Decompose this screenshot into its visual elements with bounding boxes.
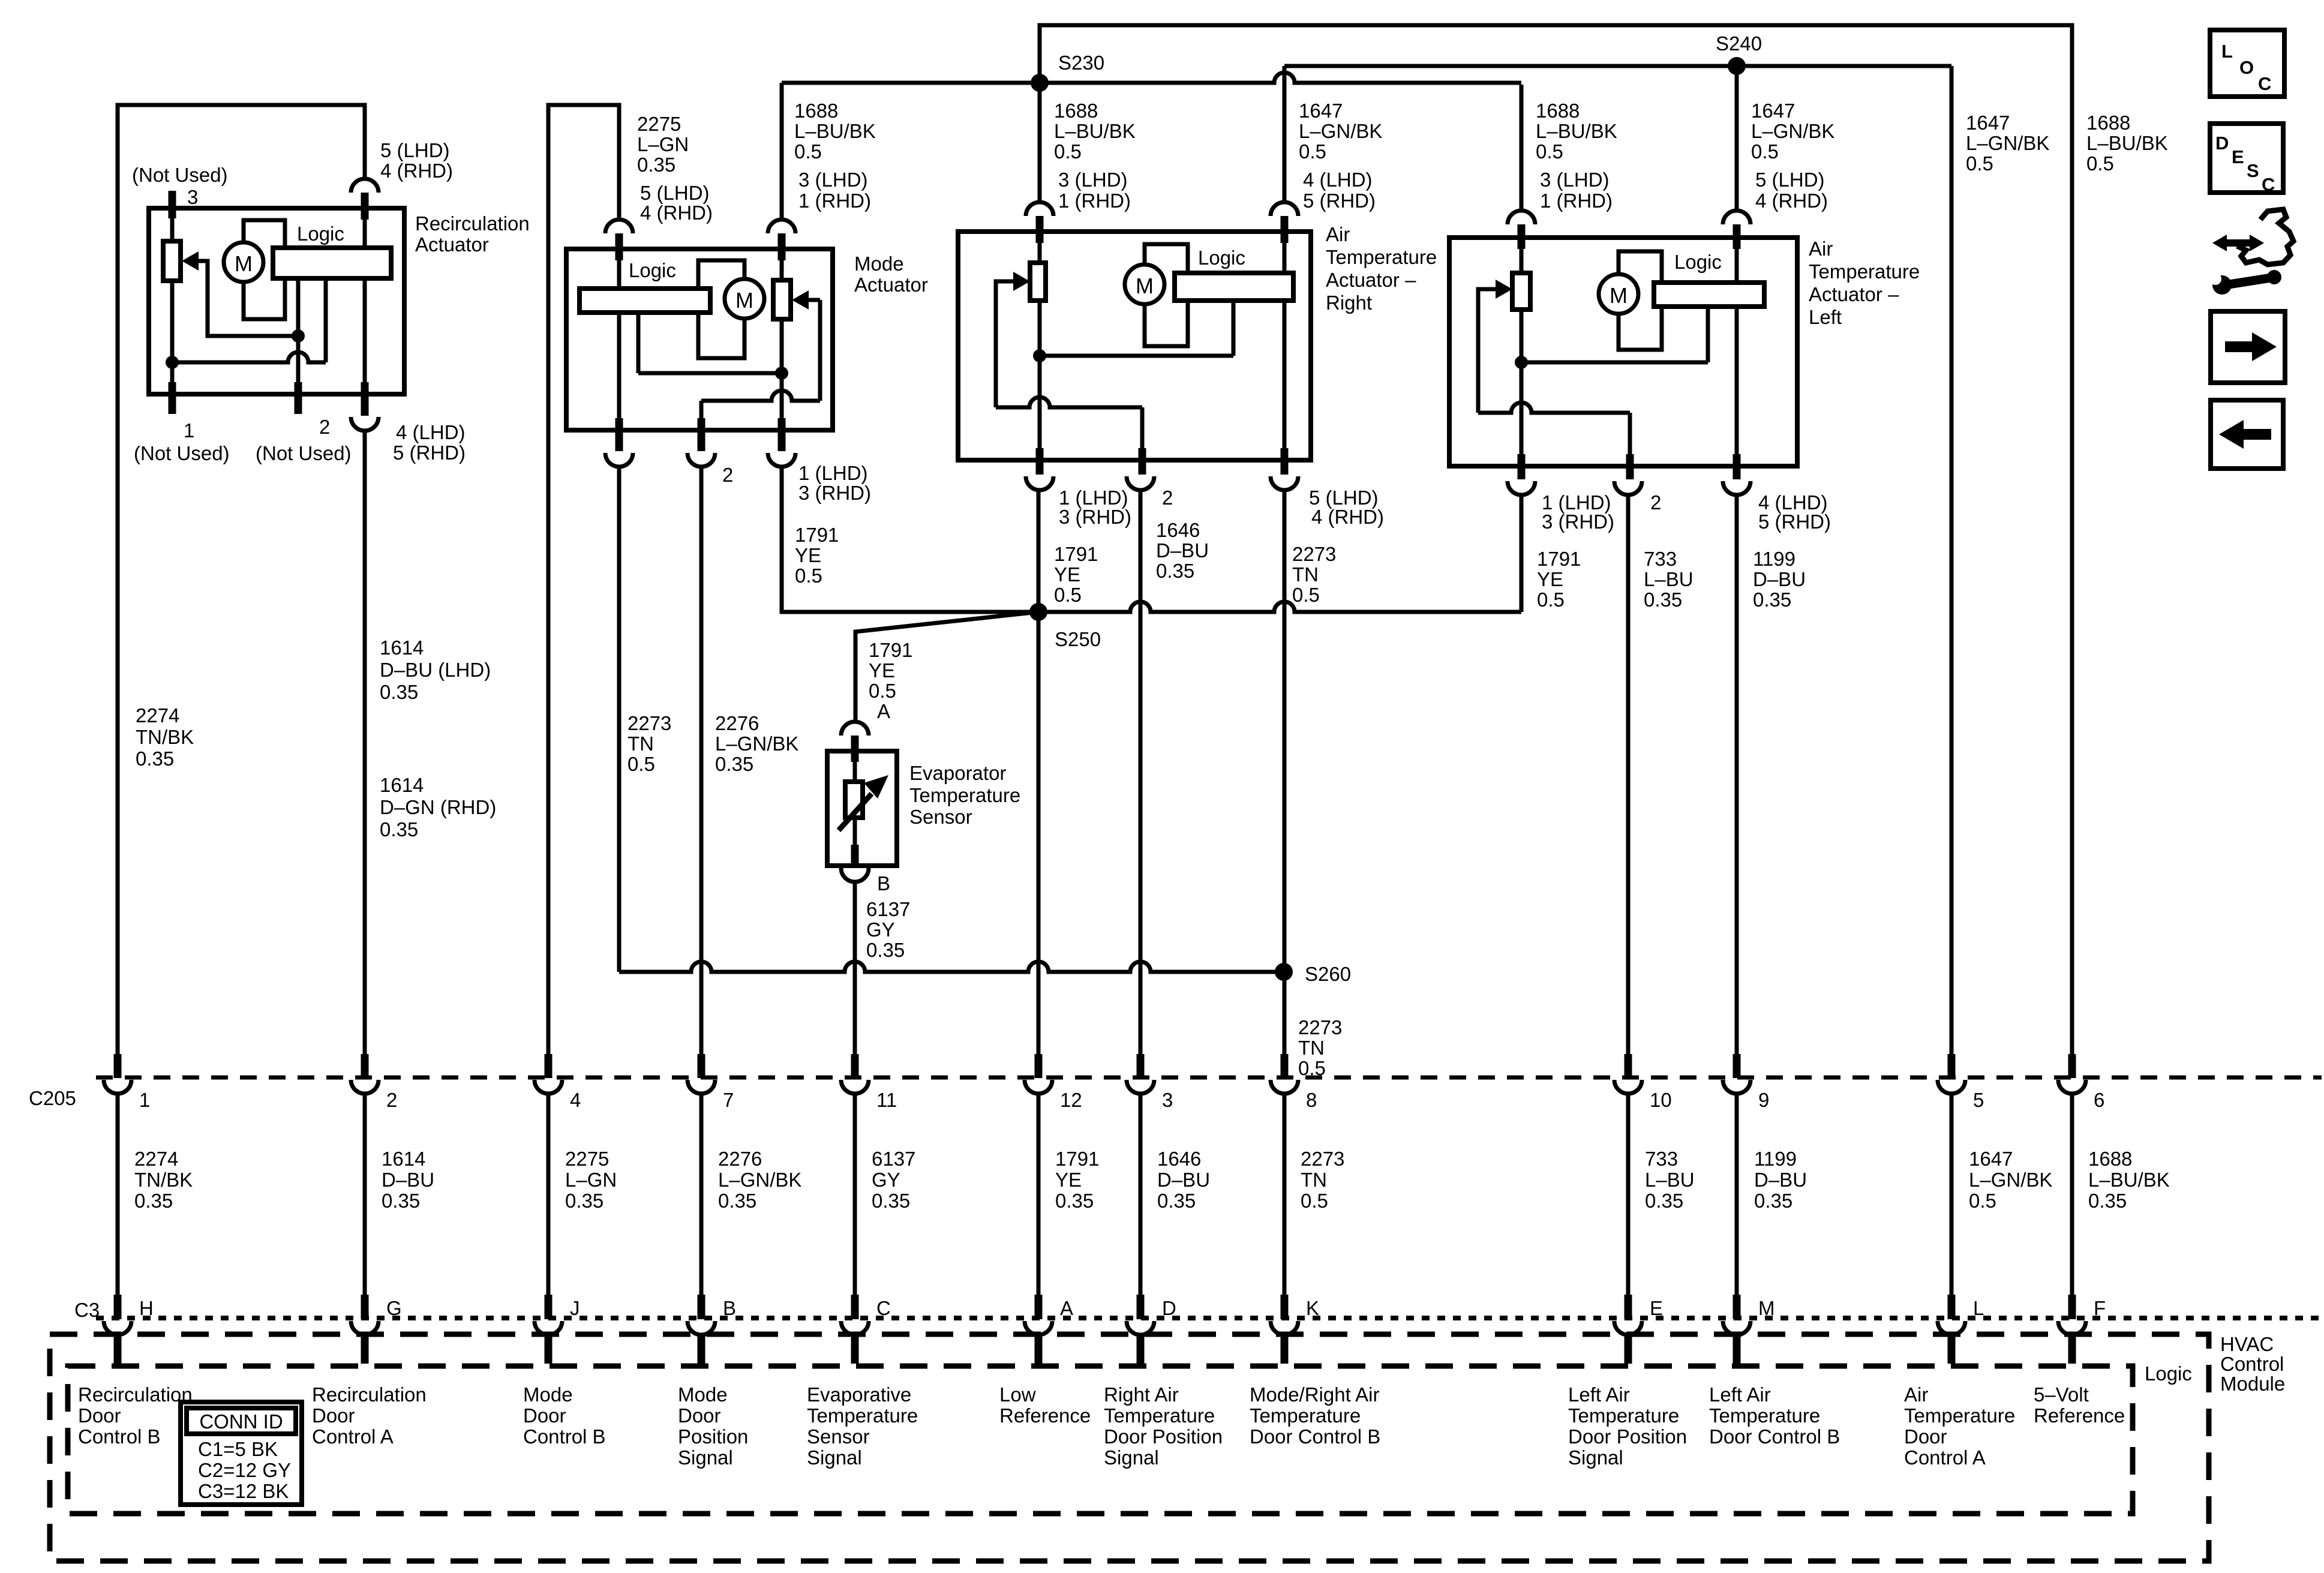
stub E into module: [1625, 1335, 1632, 1364]
svg-text:4 (RHD): 4 (RHD): [1755, 190, 1828, 212]
evaporator temperature sensor box: [827, 751, 897, 866]
arrow mode wiper: [792, 290, 809, 310]
svg-text:2: 2: [1162, 487, 1173, 509]
stub L into module: [1948, 1335, 1956, 1364]
stub C into module: [851, 1335, 859, 1364]
recirculation actuator box: [149, 208, 404, 394]
wire pin 3 to C3: [1139, 1093, 1143, 1295]
wire atr pin2 path: [996, 397, 1142, 407]
svg-text:E: E: [2232, 146, 2244, 167]
svg-text:Temperature: Temperature: [1904, 1404, 2015, 1427]
svg-text:0.35: 0.35: [718, 1190, 756, 1212]
splice S250: [1029, 603, 1047, 621]
svg-text:0.5: 0.5: [1301, 1190, 1328, 1212]
wire pin 7 to C3: [699, 1093, 704, 1295]
svg-text:(Not Used): (Not Used): [134, 442, 230, 464]
svg-text:M: M: [1758, 1297, 1775, 1319]
svg-text:3 (LHD): 3 (LHD): [798, 169, 868, 191]
wire S230 horizontal 1688: [782, 73, 1521, 83]
svg-text:1199: 1199: [1753, 548, 1795, 570]
svg-text:D–GN (RHD): D–GN (RHD): [380, 796, 496, 818]
svg-text:B: B: [877, 872, 890, 894]
svg-text:L–GN/BK: L–GN/BK: [718, 1169, 801, 1191]
wire pin 5 to C3: [1950, 1093, 1954, 1295]
svg-text:0.35: 0.35: [136, 748, 174, 770]
svg-text:5 (RHD): 5 (RHD): [1303, 190, 1376, 212]
svg-text:1688: 1688: [1054, 100, 1098, 122]
svg-text:S: S: [2247, 160, 2259, 181]
motor loop recirc: [244, 220, 285, 319]
svg-text:L–BU/BK: L–BU/BK: [1536, 120, 1617, 142]
pin 3 recirc: [169, 191, 176, 218]
wire 1614 down: [363, 431, 367, 1054]
connector cup mode left: [605, 220, 633, 233]
svg-text:0.35: 0.35: [134, 1190, 173, 1212]
junction recirc wiper: [292, 329, 305, 343]
wire pin 9 to C3: [1735, 1093, 1739, 1295]
svg-text:L–GN/BK: L–GN/BK: [715, 733, 798, 755]
svg-text:2275: 2275: [637, 113, 681, 135]
wire 1688 S230 drop: [1038, 83, 1042, 202]
svg-text:Logic: Logic: [1198, 247, 1245, 269]
svg-text:YE: YE: [1055, 1169, 1082, 1191]
svg-text:O: O: [2239, 57, 2254, 78]
svg-text:Signal: Signal: [1568, 1446, 1623, 1469]
pin atl bottom right: [1733, 454, 1741, 479]
svg-text:D: D: [1162, 1297, 1176, 1319]
svg-text:1791: 1791: [1537, 548, 1581, 570]
wire 6137 down: [853, 881, 857, 1054]
svg-text:Logic: Logic: [1674, 251, 1722, 273]
svg-text:C: C: [2262, 174, 2275, 195]
connector row C205: [96, 1076, 2322, 1080]
wire atr pot down: [1038, 301, 1042, 448]
svg-text:L–BU/BK: L–BU/BK: [2088, 1169, 2170, 1191]
svg-text:GY: GY: [866, 918, 895, 941]
pin 4 C205: [545, 1054, 553, 1078]
wire S260 horizontal: [619, 962, 1284, 972]
connector cup atr left: [1026, 202, 1053, 216]
arrow atl wiper: [1496, 280, 1512, 299]
wire pin 6 to C3: [2070, 1093, 2074, 1295]
svg-text:1 (LHD): 1 (LHD): [798, 462, 868, 484]
svg-text:L–GN/BK: L–GN/BK: [1751, 120, 1834, 142]
svg-text:1791: 1791: [1054, 543, 1098, 565]
svg-text:0.35: 0.35: [872, 1190, 910, 1212]
logic box recirc: [273, 248, 391, 278]
svg-text:1646: 1646: [1156, 519, 1200, 541]
svg-text:S250: S250: [1055, 628, 1101, 650]
wire atl pot down: [1520, 310, 1524, 454]
svg-text:Left: Left: [1809, 306, 1842, 328]
svg-text:5 (RHD): 5 (RHD): [393, 442, 466, 464]
svg-text:2273: 2273: [1301, 1148, 1344, 1170]
svg-text:F: F: [2094, 1297, 2106, 1319]
wire pin 10 to C3: [1626, 1093, 1631, 1295]
svg-text:0.5: 0.5: [1054, 584, 1082, 606]
connector cup recirc top: [351, 179, 379, 193]
svg-text:0.5: 0.5: [795, 565, 822, 587]
svg-text:2274: 2274: [136, 704, 179, 727]
svg-text:Temperature: Temperature: [807, 1404, 918, 1427]
svg-text:2275: 2275: [565, 1148, 609, 1170]
stub J into module: [545, 1335, 553, 1364]
svg-text:4 (LHD): 4 (LHD): [1303, 169, 1373, 191]
junction recirc pot: [166, 356, 179, 369]
wire 1647 atl drop: [1735, 66, 1739, 211]
pin 11 C205: [851, 1054, 859, 1078]
svg-text:1: 1: [139, 1089, 150, 1111]
svg-text:0.5: 0.5: [1751, 140, 1779, 163]
svg-text:5 (LHD): 5 (LHD): [380, 139, 450, 161]
svg-text:9: 9: [1758, 1089, 1769, 1111]
svg-text:L–GN/BK: L–GN/BK: [1299, 120, 1382, 142]
wire S240 horizontal 1647: [1284, 64, 1951, 68]
svg-text:Low: Low: [999, 1383, 1036, 1406]
wire 1688 atl drop: [1520, 85, 1524, 211]
wire recirc right through box: [363, 220, 367, 382]
svg-text:0.35: 0.35: [637, 154, 675, 176]
svg-text:0.5: 0.5: [2086, 152, 2114, 175]
pin 2 C205: [361, 1054, 369, 1078]
svg-text:Control B: Control B: [78, 1425, 161, 1448]
pin M C3: [1733, 1295, 1741, 1319]
svg-text:YE: YE: [1537, 568, 1563, 590]
svg-text:2273: 2273: [1292, 543, 1336, 565]
wire 1647 atr drop: [1283, 66, 1287, 202]
svg-text:Mode/Right Air: Mode/Right Air: [1250, 1383, 1379, 1406]
svg-text:TN/BK: TN/BK: [136, 726, 194, 748]
svg-text:L–GN/BK: L–GN/BK: [1969, 1169, 2052, 1191]
connector cup mode right: [768, 220, 795, 233]
wire mode logic tap: [638, 371, 782, 376]
arrow evap variable: [839, 794, 872, 830]
svg-text:3: 3: [1162, 1089, 1173, 1111]
pin atl bottom left: [1518, 454, 1526, 479]
svg-text:L–BU/BK: L–BU/BK: [2086, 132, 2168, 154]
pin atr bottom left: [1036, 448, 1044, 475]
svg-text:11: 11: [876, 1089, 897, 1111]
svg-text:Control B: Control B: [523, 1425, 606, 1448]
pin B C3: [698, 1295, 705, 1319]
svg-text:0.35: 0.35: [1753, 589, 1791, 611]
wire low reference bus: [1038, 602, 1521, 612]
svg-text:S240: S240: [1716, 32, 1762, 55]
svg-text:0.5: 0.5: [1054, 140, 1082, 163]
svg-text:0.35: 0.35: [382, 1190, 420, 1212]
svg-text:D–BU (LHD): D–BU (LHD): [380, 659, 491, 681]
pin A C3: [1035, 1295, 1043, 1319]
svg-text:Temperature: Temperature: [1104, 1404, 1215, 1427]
svg-text:2273: 2273: [627, 712, 671, 734]
svg-text:3: 3: [187, 186, 198, 208]
splice S230: [1031, 74, 1049, 92]
svg-text:1 (RHD): 1 (RHD): [798, 190, 871, 212]
svg-text:Temperature: Temperature: [1809, 260, 1920, 283]
svg-text:S230: S230: [1058, 52, 1104, 74]
motor M1 recirc: [224, 242, 263, 282]
svg-text:733: 733: [1644, 548, 1677, 570]
hvac logic box: [68, 1366, 2133, 1514]
svg-text:1647: 1647: [1299, 100, 1343, 122]
wire atl pot feed: [1520, 238, 1524, 273]
svg-text:TN/BK: TN/BK: [134, 1169, 193, 1191]
svg-text:5 (LHD): 5 (LHD): [1755, 169, 1825, 191]
wire 1199 down: [1735, 495, 1739, 1054]
svg-text:2: 2: [319, 416, 330, 438]
svg-text:3 (LHD): 3 (LHD): [1540, 169, 1610, 191]
svg-text:4: 4: [570, 1089, 581, 1111]
svg-text:1614: 1614: [380, 637, 424, 659]
potentiometer recirc: [163, 241, 181, 281]
svg-text:Door: Door: [678, 1404, 721, 1427]
svg-text:0.5: 0.5: [869, 680, 896, 702]
svg-text:0.35: 0.35: [866, 939, 905, 961]
pin atr bottom right: [1281, 448, 1289, 475]
connector cup atr right: [1271, 202, 1298, 216]
splice S240: [1728, 57, 1746, 75]
svg-text:L: L: [1973, 1297, 1984, 1319]
icon left arrow: [2241, 429, 2271, 440]
svg-text:Left Air: Left Air: [1709, 1383, 1771, 1406]
potentiometer mode: [773, 280, 791, 319]
arrow atr wiper: [1013, 272, 1030, 291]
pin 2 recirc: [295, 382, 302, 414]
wire recirc pot line: [172, 352, 326, 362]
svg-text:M: M: [1136, 274, 1154, 298]
svg-text:0.35: 0.35: [1644, 589, 1682, 611]
svg-text:M: M: [235, 251, 253, 276]
pin 8 C205: [1281, 1054, 1289, 1078]
wire evap inner: [853, 751, 857, 782]
icon car outline: [2237, 209, 2293, 265]
svg-text:D–BU: D–BU: [1754, 1169, 1807, 1191]
air temperature actuator right box: [958, 232, 1311, 460]
svg-text:Logic: Logic: [297, 223, 344, 245]
svg-text:Temperature: Temperature: [1709, 1404, 1820, 1427]
svg-text:E: E: [1650, 1297, 1663, 1319]
svg-text:Control A: Control A: [312, 1425, 394, 1448]
svg-text:(Not Used): (Not Used): [256, 442, 352, 464]
pin mode bottom mid: [698, 418, 705, 451]
svg-text:Right Air: Right Air: [1104, 1383, 1179, 1406]
svg-text:0.5: 0.5: [627, 753, 655, 775]
svg-text:Temperature: Temperature: [1250, 1404, 1361, 1427]
connector row C3: [96, 1316, 2322, 1320]
wire recirc loop pin1: [118, 105, 365, 1054]
pin evap B: [851, 845, 859, 866]
wire 1688 top trunk: [1040, 25, 2072, 1054]
wire atl pin2 path: [1478, 403, 1630, 413]
potentiometer atr: [1030, 263, 1046, 301]
pin recirc bottom right: [361, 382, 369, 416]
pin 5 C205: [1948, 1054, 1956, 1078]
svg-text:A: A: [1060, 1297, 1073, 1319]
svg-text:Position: Position: [678, 1425, 748, 1448]
svg-text:2276: 2276: [715, 712, 759, 734]
svg-text:1791: 1791: [869, 639, 912, 661]
svg-text:J: J: [570, 1297, 580, 1319]
svg-text:Evaporative: Evaporative: [807, 1383, 911, 1406]
stub K into module: [1281, 1335, 1289, 1364]
svg-text:1646: 1646: [1157, 1148, 1201, 1170]
wire 1791 mode corner: [782, 467, 1038, 612]
svg-text:3 (LHD): 3 (LHD): [1058, 169, 1128, 191]
svg-text:0.35: 0.35: [715, 753, 753, 775]
potentiometer atl: [1512, 273, 1530, 310]
svg-text:2274: 2274: [134, 1148, 178, 1170]
pin atr bottom mid: [1139, 448, 1146, 475]
motor M4 atl: [1599, 274, 1638, 314]
svg-text:1647: 1647: [1966, 112, 2010, 134]
svg-text:0.5: 0.5: [1299, 140, 1326, 163]
pin K C3: [1281, 1295, 1289, 1319]
svg-text:L–GN: L–GN: [637, 133, 689, 155]
svg-text:0.35: 0.35: [1645, 1190, 1683, 1212]
air temperature actuator left box: [1449, 238, 1797, 466]
svg-text:4 (RHD): 4 (RHD): [640, 202, 713, 224]
svg-text:Module: Module: [2220, 1373, 2285, 1395]
wire recirc pot feed: [170, 208, 175, 241]
svg-text:Air: Air: [1326, 223, 1350, 245]
svg-text:M: M: [735, 288, 753, 313]
svg-text:C: C: [876, 1297, 891, 1319]
wire 2273 down: [1283, 490, 1287, 1054]
wire recirc tap: [296, 278, 301, 336]
wire pin 2 to C3: [363, 1093, 367, 1295]
svg-text:C3: C3: [74, 1299, 100, 1321]
stub B into module: [698, 1335, 705, 1364]
svg-text:1199: 1199: [1754, 1148, 1797, 1170]
arrow recirc wiper: [182, 251, 199, 271]
svg-text:2: 2: [722, 464, 733, 486]
wire 733 down: [1626, 495, 1631, 1054]
svg-text:0.5: 0.5: [1536, 140, 1563, 163]
svg-text:Mode: Mode: [854, 253, 904, 275]
svg-text:1791: 1791: [795, 524, 839, 546]
svg-text:G: G: [386, 1297, 402, 1319]
wire 1647 to C205 pin5: [1950, 66, 1954, 1054]
svg-text:5–Volt: 5–Volt: [2034, 1383, 2089, 1406]
svg-text:L–GN/BK: L–GN/BK: [1966, 132, 2049, 154]
svg-text:0.35: 0.35: [1157, 1190, 1196, 1212]
junction atl: [1515, 356, 1528, 369]
svg-text:Temperature: Temperature: [1326, 246, 1437, 268]
svg-text:Logic: Logic: [629, 259, 676, 281]
svg-text:Actuator –: Actuator –: [1809, 283, 1899, 305]
svg-text:GY: GY: [872, 1169, 900, 1191]
svg-text:C1=5 BK: C1=5 BK: [198, 1438, 278, 1460]
wire pin 8 to C3: [1283, 1093, 1287, 1295]
pin F C3: [2068, 1295, 2076, 1319]
svg-text:Recirculation: Recirculation: [312, 1383, 427, 1406]
wire atr right through: [1283, 232, 1287, 448]
svg-text:Mode: Mode: [523, 1383, 573, 1406]
svg-text:1647: 1647: [1969, 1148, 2013, 1170]
svg-text:(Not Used): (Not Used): [132, 164, 228, 186]
svg-text:D–BU: D–BU: [382, 1169, 434, 1191]
icon DESC box: [2210, 124, 2283, 193]
wire 1791 atl corner: [1520, 495, 1524, 612]
svg-text:Right: Right: [1326, 292, 1372, 314]
pin 1 C205: [114, 1054, 122, 1078]
stub D into module: [1137, 1335, 1145, 1364]
svg-text:Control A: Control A: [1904, 1446, 1986, 1469]
svg-text:D–BU: D–BU: [1753, 568, 1806, 590]
svg-text:CONN ID: CONN ID: [199, 1410, 283, 1433]
svg-text:4 (LHD): 4 (LHD): [396, 421, 466, 443]
wire pin 12 to C3: [1037, 1093, 1041, 1295]
wire 2273 mode to S260: [617, 467, 621, 972]
svg-text:Recirculation: Recirculation: [78, 1383, 193, 1406]
svg-text:5 (LHD): 5 (LHD): [640, 182, 710, 204]
svg-text:Reference: Reference: [2034, 1404, 2125, 1427]
svg-text:Door: Door: [523, 1404, 566, 1427]
svg-text:5: 5: [1973, 1089, 1984, 1111]
connector cup evap A: [841, 722, 869, 736]
svg-text:1647: 1647: [1751, 100, 1795, 122]
motor loop atl: [1619, 251, 1662, 350]
svg-text:1688: 1688: [2086, 112, 2130, 134]
svg-text:0.5: 0.5: [794, 140, 822, 163]
motor M3 atr: [1125, 265, 1164, 304]
svg-text:H: H: [139, 1297, 154, 1319]
pin 9 C205: [1733, 1054, 1741, 1078]
wire recirc pot to pin1: [170, 281, 175, 394]
svg-text:10: 10: [1650, 1089, 1672, 1111]
wire mode left through: [617, 249, 621, 418]
svg-text:YE: YE: [795, 544, 821, 566]
svg-text:1688: 1688: [1536, 100, 1580, 122]
pin 3 C205: [1137, 1054, 1145, 1078]
svg-text:3 (RHD): 3 (RHD): [798, 482, 871, 504]
svg-text:Door Control B: Door Control B: [1250, 1425, 1380, 1448]
svg-text:TN: TN: [1301, 1169, 1327, 1191]
svg-text:Sensor: Sensor: [909, 806, 972, 828]
svg-text:5 (RHD): 5 (RHD): [1758, 511, 1831, 533]
svg-text:Air: Air: [1809, 238, 1833, 260]
svg-text:L–BU/BK: L–BU/BK: [794, 120, 876, 142]
conn id box: [181, 1402, 302, 1505]
svg-text:B: B: [723, 1297, 736, 1319]
splice S260: [1275, 963, 1293, 981]
svg-text:Actuator –: Actuator –: [1326, 269, 1416, 291]
wire mode pot feed: [780, 249, 784, 280]
svg-text:0.5: 0.5: [1537, 589, 1565, 611]
connector cup atl right: [1723, 211, 1750, 224]
svg-text:1: 1: [184, 419, 194, 442]
svg-text:HVAC: HVAC: [2220, 1333, 2274, 1355]
pin 10 C205: [1625, 1054, 1632, 1078]
icon LOC box: [2210, 30, 2284, 97]
svg-text:Signal: Signal: [807, 1446, 862, 1469]
pin 1 recirc: [169, 382, 176, 414]
stub H into module: [114, 1335, 122, 1364]
svg-text:Signal: Signal: [1104, 1446, 1159, 1469]
svg-text:3 (RHD): 3 (RHD): [1542, 511, 1614, 533]
svg-text:0.35: 0.35: [565, 1190, 603, 1212]
svg-text:3 (RHD): 3 (RHD): [1059, 506, 1131, 528]
wire atl logic tap: [1521, 361, 1708, 365]
svg-text:L–BU/BK: L–BU/BK: [1054, 120, 1136, 142]
svg-text:Reference: Reference: [999, 1404, 1091, 1427]
svg-text:2: 2: [1650, 491, 1661, 514]
stub F into module: [2068, 1335, 2076, 1364]
mode actuator box: [566, 249, 833, 430]
svg-text:L–BU: L–BU: [1645, 1169, 1695, 1191]
wire pin 1 to C3: [116, 1093, 120, 1295]
svg-text:Actuator: Actuator: [854, 274, 928, 296]
